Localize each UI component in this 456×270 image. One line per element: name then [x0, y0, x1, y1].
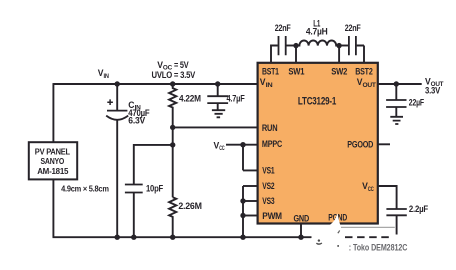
label VIN node — [98, 68, 110, 80]
wire VCC to MPPC — [226, 144, 258, 146]
svg-text:VS1: VS1 — [262, 166, 274, 176]
svg-text:4.9cm × 5.8cm: 4.9cm × 5.8cm — [61, 184, 109, 193]
svg-text:SW1: SW1 — [288, 66, 304, 76]
IC pin label VCC — [362, 181, 374, 193]
svg-text:SW2: SW2 — [331, 66, 347, 76]
wire PGOOD stub — [378, 143, 390, 145]
capacitor 4.7uF lower lead — [217, 103, 219, 110]
IC U1 LTC3129-1 body — [258, 63, 378, 224]
IC pin label VIN — [260, 77, 273, 89]
wire CBST1 to SW1 — [286, 45, 296, 47]
svg-text:4.22M: 4.22M — [179, 93, 201, 103]
wire SW2 to CBST2 — [339, 45, 348, 47]
svg-text:OUT: OUT — [363, 82, 377, 89]
ground for 4.7uF — [212, 110, 225, 117]
watermark period — [337, 245, 339, 247]
node dot VS3 — [240, 198, 245, 203]
svg-text:BST2: BST2 — [355, 66, 373, 76]
wire top VIN rail — [53, 83, 257, 85]
capacitor CIN plates — [106, 111, 128, 120]
capacitor 2.2uF lower lead — [396, 215, 398, 234]
svg-text:CC: CC — [368, 186, 374, 193]
resistor R2 2.26M — [169, 197, 176, 237]
capacitor 10pF plates — [125, 185, 143, 193]
wire left drop to PV panel — [52, 83, 54, 142]
svg-text:CC: CC — [219, 145, 225, 152]
watermark faded box line — [341, 226, 395, 228]
capacitor 10pF bottom lead — [133, 193, 135, 238]
node dot VCC-VS1 — [240, 142, 245, 147]
svg-text:2.2µF: 2.2µF — [409, 204, 429, 214]
svg-text:VS3: VS3 — [262, 196, 274, 206]
wire PV panel to bottom rail — [52, 179, 54, 237]
svg-text:10pF: 10pF — [146, 183, 164, 193]
PV panel box — [29, 142, 77, 179]
label CIN — [128, 100, 141, 112]
wire VS3 stub — [243, 200, 258, 202]
plus sign for CIN — [107, 99, 113, 105]
IC pin label VOUT — [357, 77, 376, 89]
label VOUT node — [425, 77, 444, 89]
wire VOUT rail — [378, 83, 422, 85]
wire bottom ground rail — [53, 236, 312, 238]
wire VCC pin stub — [378, 186, 397, 209]
capacitor 22uF plates — [386, 100, 406, 107]
node dot rail CIN — [115, 235, 120, 240]
svg-text:GND: GND — [294, 213, 310, 223]
svg-text:22nF: 22nF — [275, 23, 291, 33]
svg-text:VS2: VS2 — [262, 181, 274, 191]
svg-text:AM-1815: AM-1815 — [37, 167, 69, 176]
svg-text:: Toko DEM2812C: : Toko DEM2812C — [349, 242, 408, 252]
node dot rail R2 — [170, 235, 175, 240]
capacitor CBST1 22nF plates — [279, 36, 286, 55]
svg-text:4.7µF: 4.7µF — [227, 93, 246, 103]
wire VS2 stub — [243, 185, 258, 187]
svg-text:2.26M: 2.26M — [178, 201, 201, 211]
node dot rail VS chain — [240, 235, 245, 240]
ground for 22uF — [390, 117, 403, 124]
node dot R1 top — [170, 81, 175, 86]
svg-text:PWM: PWM — [262, 211, 282, 221]
capacitor CBST2 22nF plates — [349, 36, 356, 55]
resistor R1 4.22M — [169, 84, 176, 127]
svg-text:22µF: 22µF — [409, 97, 425, 107]
watermark speck — [338, 230, 340, 233]
node dot rail 10pF — [131, 235, 136, 240]
wire dashed rail remnant — [345, 236, 391, 238]
capacitor 2.2uF plates — [386, 209, 406, 215]
node dot 10pF junction — [170, 142, 175, 147]
wire RUN — [173, 126, 258, 128]
svg-text:IN: IN — [266, 82, 274, 89]
node dot PWM — [240, 213, 245, 218]
svg-text:MPPC: MPPC — [262, 139, 283, 149]
svg-text:4.7µH: 4.7µH — [306, 26, 328, 36]
wire PWM stub — [243, 215, 258, 217]
wire SW1 lead — [295, 46, 297, 63]
wire VCC branch to VS1 — [243, 145, 258, 171]
svg-text:3.3V: 3.3V — [425, 85, 440, 95]
inductor L1 — [296, 40, 339, 45]
node dot rail GND — [298, 235, 303, 240]
watermark crescent — [316, 243, 322, 244]
node dot SW1 — [293, 43, 298, 48]
svg-text:IN: IN — [104, 73, 110, 80]
svg-text:22nF: 22nF — [345, 23, 361, 33]
node dot VOUT — [394, 81, 399, 86]
capacitor CIN top lead — [116, 84, 118, 111]
node dot RUN junction — [170, 125, 175, 130]
wire CBST2 to BST2 lead — [357, 46, 364, 63]
label VOC = 5V — [157, 60, 188, 72]
watermark crescent dot — [318, 239, 320, 241]
wire divider middle — [172, 127, 174, 197]
svg-text:SANYO: SANYO — [41, 157, 65, 166]
label VCC node — [214, 141, 225, 153]
svg-text:= 5V: = 5V — [174, 60, 189, 70]
wire BST1 lead — [271, 46, 278, 63]
svg-text:PV PANEL: PV PANEL — [35, 147, 70, 156]
svg-text:UVLO = 3.5V: UVLO = 3.5V — [152, 70, 196, 80]
capacitor 22uF lower lead — [395, 107, 397, 117]
capacitor 4.7uF plates — [207, 96, 228, 103]
svg-text:PGOOD: PGOOD — [347, 140, 373, 150]
svg-text:BST1: BST1 — [262, 66, 279, 76]
wire GND lead — [300, 224, 302, 237]
wire SW2 lead — [338, 46, 340, 63]
svg-text:RUN: RUN — [262, 123, 278, 133]
wire VS2-VS3-PWM chain to ground — [242, 186, 244, 237]
capacitor 4.7uF lead — [217, 84, 219, 96]
node dot 4.7uF top — [215, 81, 220, 86]
watermark white swoosh — [311, 213, 342, 238]
capacitor CIN bottom lead — [116, 120, 118, 238]
node dot SW2 — [336, 43, 341, 48]
svg-text:6.3V: 6.3V — [128, 116, 145, 126]
wire 10pF branch — [134, 145, 173, 185]
capacitor 22uF lead — [395, 84, 397, 100]
node dot CIN top — [115, 81, 120, 86]
svg-text:LTC3129-1: LTC3129-1 — [298, 95, 336, 107]
